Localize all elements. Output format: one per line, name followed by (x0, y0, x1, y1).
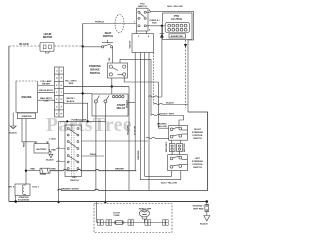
svg-text:5: 5 (149, 29, 151, 31)
wire: orange drop (140, 53, 181, 180)
wire: engine to connector (alt) (38, 85, 55, 87)
connector pair 2 (106, 220, 112, 226)
svg-text:STEERING: STEERING (192, 161, 203, 163)
svg-text:SWITCH: SWITCH (103, 34, 114, 38)
svg-text:BLACK: BLACK (166, 101, 174, 104)
node: bus dot 1 (14, 200, 17, 203)
svg-text:RELAY: RELAY (117, 106, 126, 110)
svg-text:BATTERY: BATTERY (36, 148, 47, 151)
svg-text:REGULATOR: REGULATOR (39, 89, 53, 92)
node: seat switch junction (82, 45, 84, 47)
svg-text:STARTER: STARTER (21, 115, 32, 118)
label: LIGHT FUSE (113, 212, 120, 217)
label: STARTER SOLENOID (18, 196, 30, 202)
label: AMP METER (39, 80, 53, 102)
node: junction at main feed (111, 85, 113, 87)
label: PURPLE/BLK (149, 20, 159, 25)
wire: ignition left hook 1 (56, 147, 65, 150)
wire: white/black wire with corner down (64, 103, 88, 121)
svg-text:PARKING: PARKING (89, 64, 101, 68)
svg-text:COIL 1: COIL 1 (32, 187, 40, 189)
wire: jumper row y97 (149, 96, 162, 97)
svg-text:YEL: YEL (109, 57, 111, 62)
svg-text:2: 2 (56, 106, 58, 108)
svg-text:RED: RED (24, 142, 26, 147)
svg-text:SWITCH: SWITCH (138, 6, 147, 8)
label: SEAT SWITCH (103, 31, 114, 38)
svg-text:BRN/WHT: BRN/WHT (166, 141, 168, 152)
svg-text:5: 5 (61, 99, 63, 101)
wire: violet drop (128, 87, 130, 191)
svg-text:VIOLET: VIOLET (127, 99, 129, 108)
starter (17, 113, 35, 119)
svg-text:4: 4 (56, 77, 58, 80)
svg-text:FUSE: FUSE (114, 215, 120, 217)
connector J1 strip (55, 67, 64, 117)
label: YEL/ORG RED (65, 80, 78, 85)
battery (34, 142, 49, 153)
svg-text:BRAKE: BRAKE (90, 68, 100, 72)
svg-text:BLACK: BLACK (67, 100, 75, 103)
node: bus joint left (57, 201, 59, 203)
wire: mid vertical 158.5 (158, 82, 160, 128)
wire: fuse link row (59, 120, 106, 122)
wire: left drop to bus (58, 121, 60, 202)
node: junction (66, 120, 68, 122)
PTO switch (137, 8, 149, 31)
ignition switch (dashed) (65, 125, 82, 177)
wire: brown/white bus (58, 112, 208, 191)
label: PTO SWITCH (134, 4, 151, 32)
wire: dashed mid vertical (153, 53, 155, 105)
svg-text:ENGINE: ENGINE (21, 95, 31, 99)
wire: seat switch to parking brake switch (112, 48, 114, 64)
label: HOUR METER (43, 32, 52, 39)
connector pair 5 (163, 220, 169, 226)
wire: seat label stub (99, 23, 101, 25)
svg-text:SWITCH: SWITCH (193, 167, 202, 169)
arrow on dashed line (184, 44, 187, 48)
parking brake switch (108, 63, 128, 78)
svg-text:VIOLET: VIOLET (130, 40, 132, 49)
wire: battery negative (49, 151, 51, 154)
wire: ignition left hook 2 (56, 160, 65, 163)
label: KEY SWITCH (70, 177, 79, 182)
wire: headlamp feed (96, 202, 98, 223)
svg-text:BROWN: BROWN (115, 169, 124, 171)
svg-text:PartsTree: PartsTree (46, 115, 132, 136)
svg-text:SPL 4: SPL 4 (8, 186, 15, 189)
svg-text:START: START (117, 103, 126, 107)
svg-text:WHT RED: WHT RED (193, 208, 204, 210)
label: RIGHT STEERING CONTROL SWITCH (192, 129, 204, 140)
node: bus joint (104, 201, 106, 203)
svg-text:PURPLE: PURPLE (95, 22, 104, 24)
node: bus dot right (206, 200, 209, 203)
svg-text:RIGHT: RIGHT (194, 129, 201, 131)
node: fuse wire junction (25, 170, 27, 172)
svg-text:1: 1 (61, 92, 63, 94)
svg-text:1: 1 (56, 92, 58, 94)
svg-text:STARTER: STARTER (18, 196, 29, 199)
wire: drop to bus (148, 53, 150, 191)
svg-text:C. BLK: C. BLK (49, 139, 57, 141)
wire: brown/yellow row (159, 127, 169, 129)
svg-text:LT BLUE: LT BLUE (135, 125, 137, 135)
interlock module (132, 31, 154, 53)
wire: brown fuse row (26, 170, 40, 172)
connector ellipse (dashed) (115, 15, 124, 33)
engine (16, 81, 38, 113)
svg-text:SWITCH: SWITCH (70, 180, 79, 182)
svg-text:CONTROL: CONTROL (192, 164, 203, 166)
svg-text:6: 6 (61, 85, 63, 87)
headlamp (139, 210, 149, 223)
node: junction2 (87, 120, 89, 122)
label: WHITE/BLACK (66, 98, 75, 103)
svg-text:CONTROL: CONTROL (192, 135, 203, 137)
label: BLK tags (49, 139, 57, 152)
wire: lower row into right box (146, 137, 169, 138)
wire: second contact leg (104, 116, 106, 202)
wire: engine to connector (regulator) (38, 91, 55, 93)
wire: strip row to relay (64, 92, 93, 94)
svg-text:BLK: BLK (152, 23, 157, 25)
ground: battery ground arrow (49, 154, 53, 158)
wire: top dashed black to hour meter (9, 45, 40, 47)
wire: relay contact down legs (95, 116, 97, 191)
pin numbers (56, 71, 62, 116)
svg-text:SWITCH: SWITCH (193, 138, 202, 140)
svg-text:5: 5 (56, 99, 58, 101)
svg-text:ARMATURE: ARMATURE (171, 35, 184, 38)
svg-text:RED: RED (30, 169, 35, 171)
label: PARKING BRAKE SWITCH (89, 64, 101, 75)
svg-text:BLK: YELLOW: BLK: YELLOW (167, 6, 183, 8)
wire: main feed row (64, 86, 130, 88)
left steering control switch (168, 155, 188, 171)
wire: ignition right out 1 (82, 140, 149, 142)
svg-text:3: 3 (61, 71, 63, 73)
svg-text:VIOLET / WHT: VIOLET / WHT (159, 113, 174, 115)
fuse F1 (40, 168, 50, 173)
wire: dashed harness line right (185, 40, 187, 108)
wire: to seat switch (83, 46, 102, 48)
wire: mid vertical 151 (150, 59, 152, 115)
svg-text:SWITCH: SWITCH (90, 71, 101, 75)
svg-text:BLACK: BLACK (19, 42, 28, 46)
wire: pb switch lower right (124, 76, 158, 82)
svg-text:BROWN: BROWN (184, 143, 186, 152)
svg-text:3: 3 (56, 71, 58, 73)
wire: BLK/YELLOW feed from PTO switch to clutch frame (146, 11, 193, 112)
circuit breaker (15, 184, 30, 202)
svg-text:RED: RED (69, 83, 74, 85)
diode D1 (clutch flyback) (160, 26, 165, 97)
svg-text:6: 6 (56, 85, 58, 87)
PTO clutch (163, 13, 193, 40)
svg-text:4: 4 (61, 77, 63, 80)
wire: purple/blk to clutch (146, 25, 165, 27)
svg-text:LEFT: LEFT (195, 158, 201, 160)
label: PTO CLUTCH (171, 14, 184, 38)
steering connectors (169, 144, 182, 152)
svg-text:METER: METER (43, 35, 52, 39)
hour meter (40, 43, 54, 54)
svg-text:METER: METER (42, 84, 50, 86)
wire: steering internal links (171, 140, 173, 143)
svg-text:YEL/GRN: YEL/GRN (128, 125, 130, 135)
headlamp harness (dashed) (94, 204, 172, 233)
right steering control switch (169, 126, 188, 141)
wire: starter to fuse junction (25, 119, 27, 185)
svg-text:T.BLK: T.BLK (90, 154, 97, 156)
svg-text:CLUTCH: CLUTCH (171, 17, 182, 21)
svg-text:HEADLAMP: HEADLAMP (139, 207, 152, 210)
label: GROUND WIRE (193, 206, 204, 211)
wire: brown row continue with hooks (50, 169, 136, 170)
ground: right chassis ground (204, 202, 210, 222)
node: junction (82, 92, 84, 94)
wire: purple wire to PTO switch (83, 23, 137, 25)
wire: ignition right out 2 (82, 155, 105, 157)
connector pair 3 (128, 220, 134, 226)
wire: brown riser (134, 53, 136, 171)
label: START RELAY (117, 103, 126, 110)
battery feed wires from starter (22, 119, 36, 142)
svg-text:ORANGE: ORANGE (137, 150, 140, 160)
wire: black row right (154, 103, 188, 104)
wire: relay output right (128, 101, 135, 103)
wire: yellow drop (145, 53, 172, 177)
wire: left border black (8, 46, 10, 202)
svg-text:2: 2 (61, 106, 63, 108)
svg-text:8: 8 (148, 36, 150, 38)
wire: vertical from seat junction down (82, 24, 84, 122)
ground: engine ground arrow (10, 113, 16, 129)
svg-text:BLACK: BLACK (9, 131, 17, 134)
wire: violet/wht row right (151, 114, 184, 125)
wire: hour meter to seat switch junction (dashed) (54, 45, 83, 47)
wire: engine to connector (magneto) (38, 99, 55, 101)
wire: lamp bus (97, 222, 169, 224)
svg-text:BLACK: BLACK (46, 159, 54, 162)
label: BROWN/YELLOW (157, 123, 167, 128)
wire: main ground bus (9, 201, 207, 203)
svg-text:3: 3 (138, 36, 140, 38)
connector pair 1 (98, 220, 104, 226)
svg-text:FUSE: FUSE (40, 174, 46, 176)
node: clutch feed junction (161, 25, 163, 27)
label: LEFT STEERING CONTROL SWITCH (192, 158, 204, 169)
svg-text:STEERING: STEERING (192, 132, 203, 134)
svg-text:BLACK: BLACK (200, 223, 208, 226)
start relay (92, 94, 128, 116)
svg-text:BLK / YELLOW: BLK / YELLOW (161, 183, 178, 185)
seat switch (102, 40, 114, 48)
svg-text:YELLOW: YELLOW (157, 126, 167, 128)
wire: pb switch to mid verticals (top) (120, 59, 151, 63)
svg-text:BROWN / WHITE: BROWN / WHITE (61, 188, 79, 190)
connector pair 4 (145, 220, 151, 226)
wire: pb switch bottom to relay (111, 78, 113, 94)
fuse: light fuse (114, 220, 124, 224)
svg-text:COIL: COIL (43, 101, 49, 103)
